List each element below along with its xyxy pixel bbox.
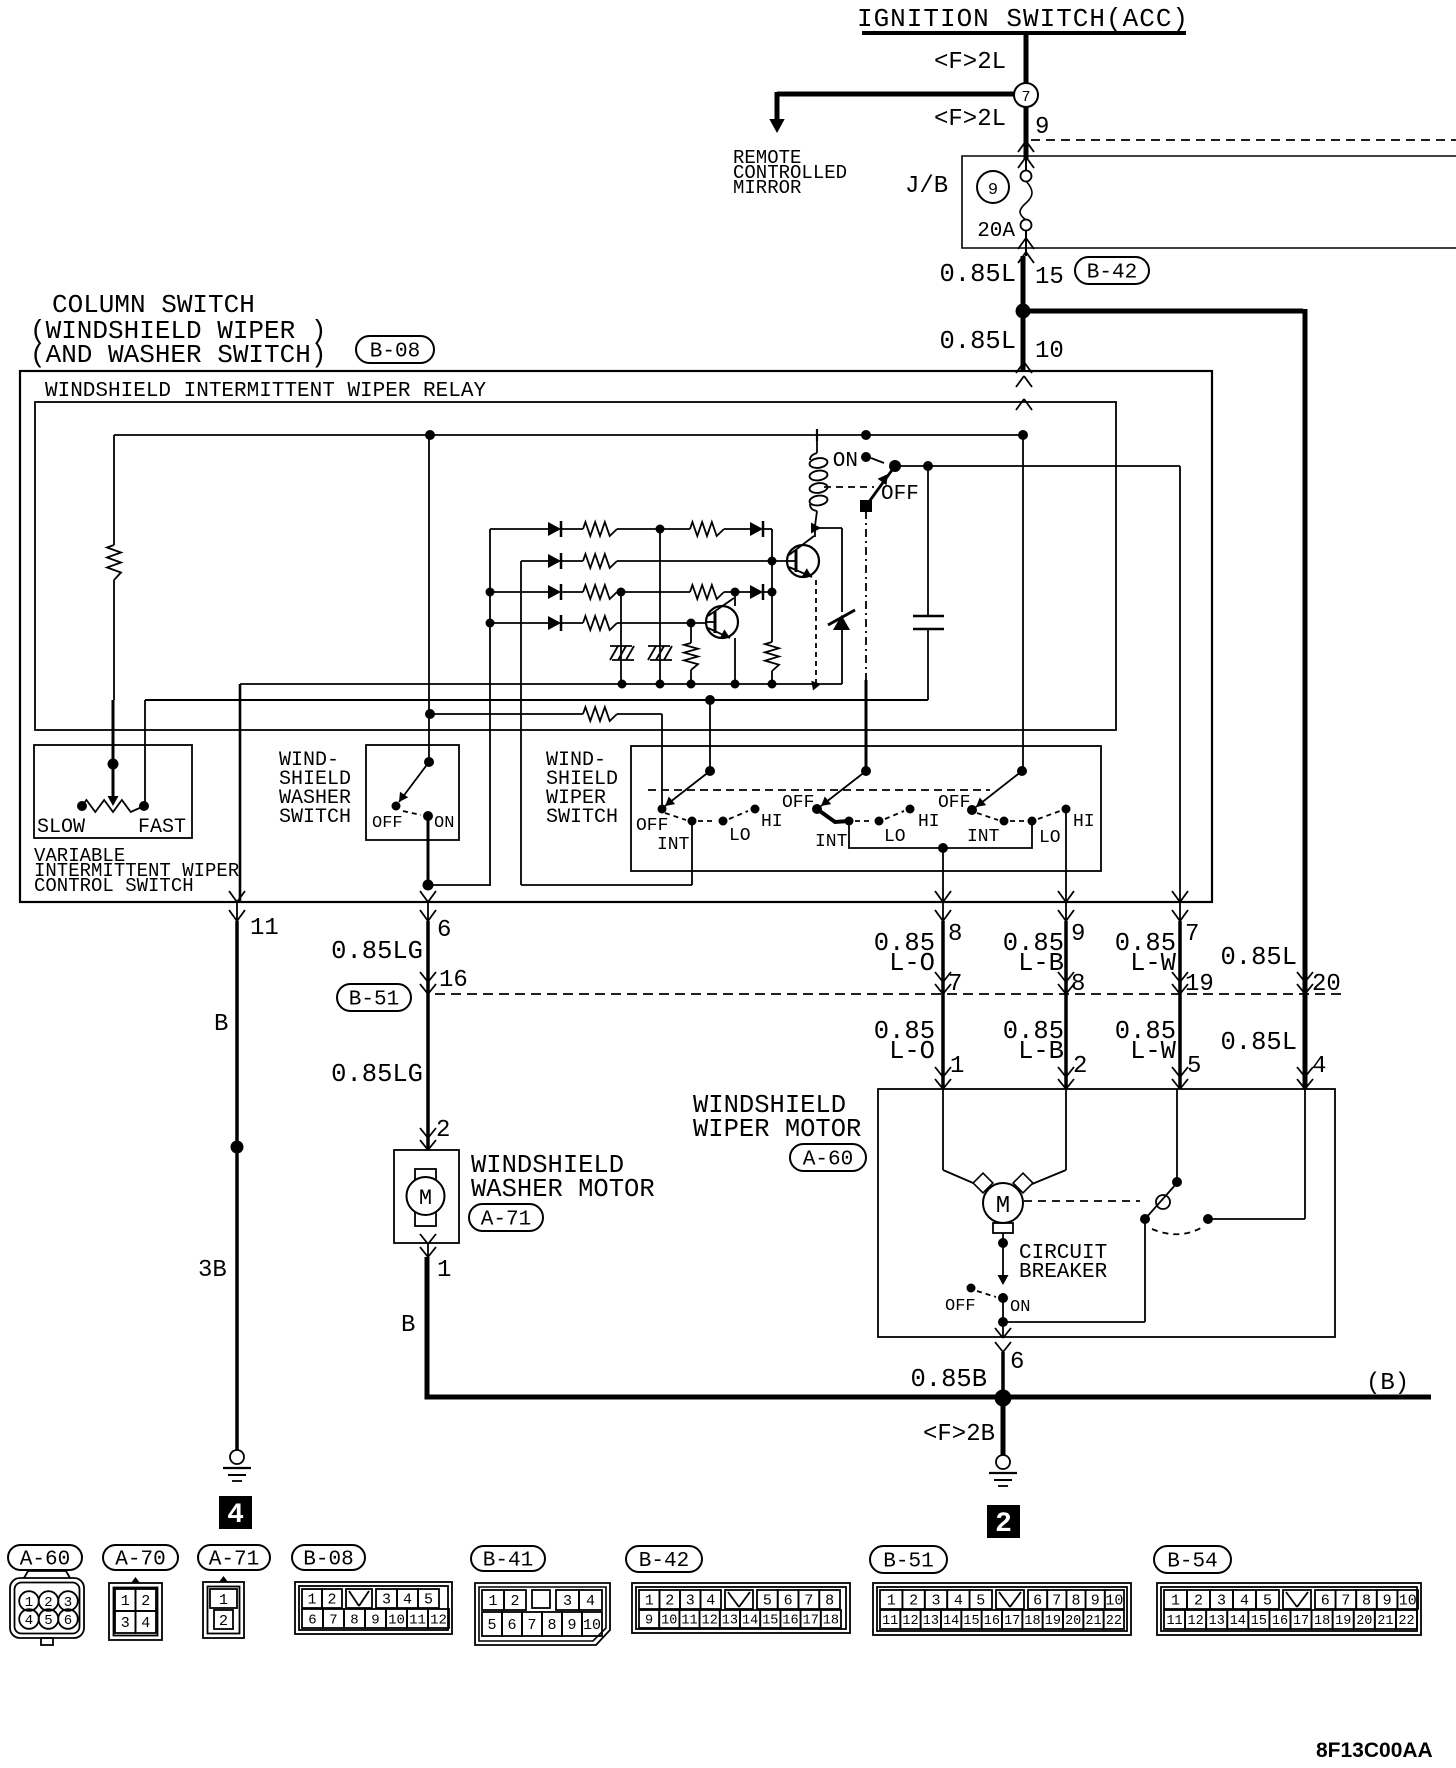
connector crossing chevrons L-O top [935,891,943,902]
node washer ON contact [423,811,433,821]
wire L-W upper segment [1179,902,1181,921]
wire park common down [1144,1219,1146,1322]
svg-text:18: 18 [823,1614,839,1629]
svg-text:1: 1 [219,1592,228,1609]
svg-text:7: 7 [527,1617,536,1634]
chevrons motor box out [995,1328,1003,1338]
bank2 thick throw to INT [817,809,849,822]
wire left bus of matrix x490 [489,529,491,886]
wire L-W run down right side [1179,466,1181,902]
svg-text:7: 7 [1341,1593,1350,1610]
svg-text:12: 12 [430,1612,447,1628]
wire 6 washer lead [427,902,429,921]
connector B-54 pinout [1157,1583,1421,1635]
svg-text:7: 7 [1021,89,1030,106]
svg-text:B-42: B-42 [1087,262,1137,285]
washer switch arm [399,762,429,802]
wire to ground symbol [1001,1398,1006,1456]
svg-text:LO: LO [729,826,751,846]
svg-text:15: 15 [762,1614,778,1629]
svg-text:9: 9 [371,1612,379,1628]
connector crossing chevrons L-W top [1172,891,1180,902]
connector label B-08 strip [292,1545,365,1570]
wire motor low lead [942,1089,944,1170]
resistor R9 washer line [583,707,617,721]
connector crossing chevrons L-B top [1058,891,1066,902]
node junction row4 [687,619,696,628]
node bank2 pivot [861,766,871,776]
connector B-42 pinout [632,1583,850,1633]
svg-text:0.85B: 0.85B [910,1365,987,1394]
node relay common pivot [889,460,901,472]
svg-text:3: 3 [563,1593,572,1610]
wire speed line y700 [145,699,928,701]
node junction row3 c [768,588,777,597]
svg-text:19: 19 [1045,1614,1061,1629]
node junction washer out [423,880,434,891]
park switch dashed throw [1152,1228,1201,1234]
svg-text:11: 11 [882,1614,898,1629]
svg-text:LO: LO [884,827,906,847]
svg-text:6: 6 [64,1613,72,1629]
svg-text:15: 15 [1251,1614,1267,1629]
svg-text:SWITCH: SWITCH [279,806,351,829]
wire bus drop to pin11 [239,684,242,902]
svg-text:3B: 3B [198,1257,227,1284]
svg-text:L-B: L-B [1018,1037,1064,1066]
wire park contact to right rail [1208,1218,1305,1220]
svg-text:6: 6 [308,1612,316,1628]
connector crossing chevrons pin6 [420,891,428,902]
svg-text:14: 14 [742,1614,758,1629]
wiper switch gang dashed link [648,789,990,791]
svg-text:FAST: FAST [138,816,186,839]
svg-text:1: 1 [645,1593,654,1610]
svg-text:16: 16 [984,1614,1000,1629]
wire washer motor to ground bus [427,1243,429,1257]
svg-text:<F>2L: <F>2L [934,49,1006,76]
node dot on pot wiper lead [108,759,119,770]
svg-text:2: 2 [436,1117,450,1144]
node bank1 INT [688,817,697,826]
diode D2 row1 [750,522,763,536]
node junction supply split [1016,304,1031,319]
node junction relay switch feed [861,430,871,440]
svg-text:1: 1 [887,1593,896,1610]
svg-text:8: 8 [1362,1593,1371,1610]
svg-text:OFF: OFF [636,816,668,836]
svg-text:9: 9 [1091,1593,1100,1610]
motor M1 body [983,1183,1023,1223]
node bank3 OFF [967,805,977,815]
svg-text:M: M [419,1186,432,1211]
wire row4 [490,622,548,624]
chevrons L-O into motor box [935,1067,943,1077]
connector crossing chevrons into column switch box [1016,362,1024,373]
resistor R3 row2 [583,554,617,568]
wire relay supply rail y435 [114,434,1023,436]
svg-text:20A: 20A [977,220,1015,243]
wire thick branch to right rail [1023,309,1303,314]
svg-text:2: 2 [327,1592,336,1609]
wire motor high lead [1065,1089,1067,1170]
connector crossing chevrons pin11 [229,891,237,902]
node bus dot row3 [486,588,495,597]
relay coil [816,441,818,453]
svg-text:IGNITION SWITCH(ACC): IGNITION SWITCH(ACC) [857,4,1189,34]
resistor R4 row3 [583,585,617,599]
svg-text:3: 3 [121,1615,130,1632]
svg-text:9: 9 [988,181,998,200]
bank1 throw dashes [665,813,686,820]
svg-text:0.85LG: 0.85LG [331,1060,423,1089]
svg-text:2: 2 [995,1509,1012,1540]
ground symbol wire 11 [230,1450,244,1464]
svg-text:J/B: J/B [905,173,948,200]
resistor R2 row1 [660,528,690,530]
svg-text:MIRROR: MIRROR [733,177,801,199]
svg-text:L-W: L-W [1130,1037,1177,1066]
svg-text:20: 20 [1356,1614,1372,1629]
node park pivot [1140,1214,1150,1224]
svg-text:L-O: L-O [889,949,935,978]
box windshield wiper switch [631,746,1101,871]
wire breaker down [1002,1298,1004,1337]
wire 11 black lead [235,921,239,1451]
node junction park return [998,1317,1008,1327]
wire ignition bus underline [862,31,1186,35]
washer motor M circle [407,1177,445,1215]
svg-text:5: 5 [763,1593,772,1610]
breaker dashed throw [977,1291,996,1297]
node bank3 LO [1028,817,1037,826]
motor to park switch dashed link [1024,1200,1140,1202]
node junction bracket out [938,843,948,853]
svg-text:2: 2 [665,1593,674,1610]
svg-text:0.85L: 0.85L [1220,943,1297,972]
svg-text:SWITCH: SWITCH [546,806,618,829]
node bus tick right [811,681,821,691]
svg-text:6: 6 [507,1617,516,1634]
resistor R8 column [684,643,698,670]
svg-text:6: 6 [1010,1349,1024,1376]
washer dashed throw [403,811,421,815]
svg-text:4: 4 [586,1593,595,1610]
node washer pivot [424,757,434,767]
relay moving contact arm [866,466,895,506]
svg-text:WIPER MOTOR: WIPER MOTOR [693,1115,861,1144]
wire washer ON down [427,816,430,885]
svg-text:HI: HI [1073,812,1095,832]
svg-text:12: 12 [1188,1614,1204,1629]
svg-text:A-71: A-71 [209,1549,259,1572]
box column switch outline [20,371,1212,902]
svg-text:CONTROL SWITCH: CONTROL SWITCH [34,875,194,897]
node bus dot row4 [486,619,495,628]
svg-text:8: 8 [948,921,962,948]
wire washer switch feed x430 [428,435,430,762]
wire x114 to control pot [113,580,115,700]
node junction row3 a [617,588,626,597]
svg-text:5: 5 [44,1613,52,1629]
svg-text:OFF: OFF [782,793,814,813]
svg-text:6: 6 [784,1593,793,1610]
svg-text:10: 10 [583,1617,601,1634]
wire left branch x114 [113,435,115,545]
svg-text:19: 19 [1185,971,1214,998]
node junction ground bus [995,1390,1012,1407]
svg-text:14: 14 [1230,1614,1246,1629]
svg-text:A-71: A-71 [481,1209,531,1232]
fuse 20A symbol [1021,171,1032,182]
svg-text:11: 11 [409,1612,426,1628]
diode D1 row1 [490,528,548,530]
svg-text:8: 8 [547,1617,556,1634]
node junction row1 [656,525,665,534]
svg-text:B-41: B-41 [483,1550,533,1573]
node junction row2 [768,557,777,566]
connector B-51 dashed line [435,993,1345,995]
svg-text:22: 22 [1398,1614,1414,1629]
wire column x691 [690,623,692,643]
svg-text:18: 18 [1314,1614,1330,1629]
svg-text:1: 1 [1171,1593,1180,1610]
bank2 throw dashes [855,820,872,822]
svg-text:ON: ON [434,814,454,833]
svg-text:2: 2 [219,1613,228,1630]
node junction wiper common1 feed [705,695,715,705]
svg-text:9: 9 [567,1617,576,1634]
bank3 arm [976,771,1022,807]
svg-text:15: 15 [1035,264,1064,291]
ground symbol motor [996,1455,1010,1469]
motor M1 lower terminal [993,1223,1013,1233]
node bank1 OFF [658,805,667,814]
svg-text:M: M [996,1193,1010,1220]
svg-text:INT: INT [967,827,1000,847]
svg-text:B-08: B-08 [303,1549,353,1572]
svg-text:17: 17 [1293,1614,1309,1629]
node bank3 HI [1062,805,1071,814]
wire column x660 [659,529,661,684]
svg-text:18: 18 [1024,1614,1040,1629]
node bank3 INT [1000,817,1009,826]
svg-text:B-54: B-54 [1167,1551,1217,1574]
svg-text:4: 4 [403,1592,412,1609]
node junction motor bottom [998,1238,1008,1248]
wire run contact up [1176,1089,1178,1182]
node breaker OFF contact [967,1284,976,1293]
svg-text:10: 10 [1105,1593,1123,1610]
wire row2 from x521 [521,560,548,562]
wire bank3 HI drop to pin9 [1065,809,1067,902]
node washer OFF contact [392,802,401,811]
svg-text:14: 14 [943,1614,959,1629]
svg-text:6: 6 [437,917,451,944]
svg-text:8: 8 [350,1612,358,1628]
svg-text:1: 1 [307,1592,316,1609]
bank1 arm [665,771,710,806]
svg-text:A-60: A-60 [803,1149,853,1172]
transistor Q1 [706,621,715,623]
svg-text:1: 1 [950,1053,964,1080]
svg-text:<F>2B: <F>2B [923,1421,995,1448]
box windshield washer motor [394,1150,459,1243]
motor M1 brushes [973,1173,993,1193]
node bank1 HI [751,805,760,814]
svg-text:17: 17 [803,1614,819,1629]
ground tag 4 [219,1496,252,1529]
svg-text:16: 16 [439,967,468,994]
svg-text:3: 3 [382,1592,391,1609]
node splice 7 [1014,83,1038,107]
diode D3 row2 [548,554,561,568]
connector label B-54 strip [1154,1546,1231,1573]
svg-text:4: 4 [1240,1593,1249,1610]
chevrons washer motor in [420,1128,428,1138]
svg-text:20: 20 [1312,971,1341,998]
wire supply down to wiper switch common 3 [1022,435,1024,771]
wire relay bottom bus y684 [240,683,842,685]
svg-text:21: 21 [1377,1614,1393,1629]
svg-text:11: 11 [681,1614,697,1629]
svg-text:4: 4 [141,1615,150,1632]
wire washer-on link to bus [428,884,490,886]
connector B-41 pinout [475,1583,610,1645]
chevrons L-O at B-51 [935,984,943,994]
bank3 throw dashes [977,813,998,820]
svg-text:OFF: OFF [372,814,403,833]
wire feedback column x772 [771,529,773,642]
svg-text:3: 3 [1217,1593,1226,1610]
connector label B-51 strip [870,1546,947,1573]
node relay ON contact [861,452,871,462]
svg-text:10: 10 [1035,338,1064,365]
svg-text:8: 8 [825,1593,834,1610]
circuit breaker symbol [1002,1243,1004,1276]
svg-text:4: 4 [706,1593,715,1610]
svg-text:7: 7 [329,1612,337,1628]
svg-text:8F13C00AA: 8F13C00AA [1316,1739,1433,1762]
node splice on wire 11 [231,1141,244,1154]
wire branch to remote mirror [777,92,1015,97]
connector B-08 pinout [295,1582,452,1634]
svg-text:L-O: L-O [889,1037,935,1066]
svg-text:INT: INT [657,835,690,855]
wire right supply rail down to wiper motor [1303,309,1308,1089]
svg-text:9: 9 [1383,1593,1392,1610]
svg-text:A-70: A-70 [115,1549,165,1572]
svg-text:HI: HI [761,812,783,832]
svg-text:12: 12 [902,1614,918,1629]
wire mirror branch arrow [775,92,780,120]
svg-text:A-60: A-60 [20,1549,70,1572]
svg-text:<F>2L: <F>2L [934,106,1006,133]
svg-text:7: 7 [1052,1593,1061,1610]
connector label A-71 [469,1204,543,1231]
svg-text:9: 9 [1035,114,1049,141]
svg-text:INT: INT [815,832,848,852]
svg-text:10: 10 [661,1614,677,1629]
svg-text:0.85L: 0.85L [939,260,1016,289]
svg-text:L-B: L-B [1018,949,1064,978]
resistor relay left [107,545,121,580]
washer motor armature [415,1169,436,1226]
svg-text:LO: LO [1039,828,1061,848]
node bank2 HI [906,805,915,814]
svg-text:2: 2 [909,1593,918,1610]
svg-text:5: 5 [424,1592,433,1609]
svg-text:OFF: OFF [945,1297,976,1316]
junction block J/B box [962,156,1456,248]
svg-text:4: 4 [25,1613,33,1629]
svg-text:(B): (B) [1366,1370,1409,1397]
connector label A-71 strip [198,1545,270,1570]
connector crossing chevrons top [1018,141,1026,152]
svg-text:7: 7 [804,1593,813,1610]
wire Q1 collector/emitter column x735 [734,592,736,606]
svg-text:7: 7 [1185,921,1199,948]
wire supply into J/B [1024,107,1029,160]
node bank2 INT [845,817,854,826]
connector A-71 pinout [203,1582,244,1638]
wire column x622 [620,592,622,684]
svg-text:8: 8 [1071,1593,1080,1610]
chevrons L rail into motor box [1297,1067,1305,1077]
connector label B-51 [337,984,411,1011]
wire Q2 emitter to bus (dash) [815,580,817,684]
svg-text:2: 2 [1194,1593,1203,1610]
chevrons wire6 at B-51 [420,984,428,994]
svg-text:5: 5 [976,1593,985,1610]
svg-text:5: 5 [1187,1053,1201,1080]
ground tag 2 [987,1505,1020,1538]
svg-text:WASHER MOTOR: WASHER MOTOR [471,1175,655,1204]
chevrons L-W into motor box [1172,1067,1180,1077]
svg-text:12: 12 [702,1614,718,1629]
node bank1 pivot [705,766,715,776]
wire pivot drop bank1 [709,700,711,771]
svg-text:B-51: B-51 [883,1551,933,1574]
svg-text:SLOW: SLOW [37,816,85,839]
svg-text:ON: ON [1010,1298,1030,1317]
node circled 9 [977,171,1009,203]
box variable intermittent wiper control switch [34,745,192,838]
wire bank2 INT / bank3 LO bracket [849,821,1032,848]
transistor Q2 [787,560,796,562]
svg-text:20: 20 [1065,1614,1081,1629]
svg-text:2: 2 [1073,1053,1087,1080]
svg-text:B-42: B-42 [639,1550,689,1573]
svg-text:L-W: L-W [1130,949,1177,978]
diode D4 row3 [548,585,561,599]
svg-text:16: 16 [782,1614,798,1629]
node junction washer feed [425,430,435,440]
svg-text:0.85LG: 0.85LG [331,937,423,966]
svg-text:B: B [401,1312,415,1339]
svg-text:0.85L: 0.85L [1220,1028,1297,1057]
svg-text:22: 22 [1106,1614,1122,1629]
resistor R6 row4 [583,616,617,630]
svg-text:5: 5 [487,1617,496,1634]
wire dashed B-42 boundary top [1031,139,1456,141]
chevrons washer motor out [420,1234,428,1244]
resistor R7 column [765,642,779,671]
svg-text:3: 3 [931,1593,940,1610]
svg-text:(AND WASHER SWITCH): (AND WASHER SWITCH) [30,340,326,370]
connector label A-70 strip [103,1545,178,1570]
wire row3 [490,591,548,593]
